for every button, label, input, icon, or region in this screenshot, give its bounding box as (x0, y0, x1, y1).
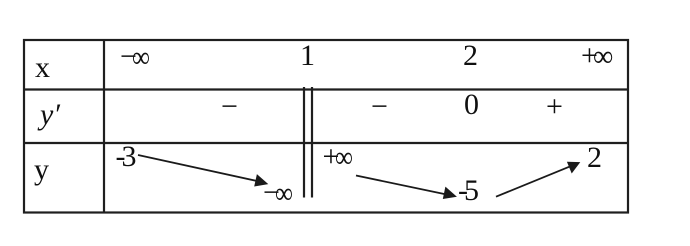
arrow increasing from -5 to 2 (496, 162, 580, 197)
double bar at x=1 (left line) (303, 87, 305, 198)
y row: value 2 (587, 143, 602, 173)
column divider (labels | values) (103, 40, 105, 213)
y row: -3 (116, 142, 133, 172)
x row: -infinity (120, 42, 154, 72)
y row: -5 (458, 176, 475, 206)
y row: +infinity limit (323, 142, 357, 172)
x row: value 2 (463, 41, 478, 71)
x row: +infinity (581, 41, 615, 71)
row label x (35, 53, 50, 83)
table outer border (24, 40, 628, 213)
row divider between x row and y' row (24, 88, 628, 90)
double bar at x=1 (right line) (311, 87, 313, 198)
y row: -infinity limit (263, 178, 297, 208)
row divider between y' row and y row (24, 142, 628, 144)
row label y' (40, 100, 60, 130)
arrow decreasing from +infinity to -5 (356, 176, 457, 200)
y' row: zero (464, 90, 479, 120)
y' row: plus sign (546, 92, 563, 122)
x row: value 1 (300, 41, 315, 71)
y' row: second minus sign (371, 92, 388, 122)
arrow decreasing from -3 to -infinity (138, 155, 268, 187)
y' row: first minus sign (221, 92, 238, 122)
row label y (34, 155, 49, 185)
